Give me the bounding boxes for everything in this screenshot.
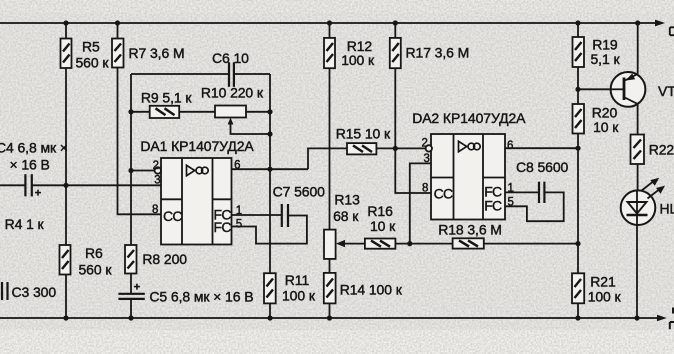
svg-text:FC: FC bbox=[214, 219, 232, 235]
arrow: R13 wiper from R16 bbox=[336, 240, 345, 247]
wire: R16 to R18 bbox=[395, 243, 452, 245]
junction: R16 / R18 / DA2 pin 3 bbox=[407, 241, 412, 246]
resistor R19 5,1k bbox=[573, 37, 621, 68]
svg-text:100 к: 100 к bbox=[282, 288, 316, 304]
arrow: LED emission 2 bbox=[648, 186, 666, 199]
svg-text:100 к: 100 к bbox=[588, 289, 622, 305]
wire: R10 wiper arm bbox=[231, 122, 271, 134]
svg-text:R13: R13 bbox=[334, 192, 360, 208]
svg-text:68 к: 68 к bbox=[333, 208, 359, 224]
junction: R9 left lead on feedback line bbox=[128, 109, 133, 114]
wire: R20 bottom to DA2 pin6 node and down to R18 node bbox=[577, 134, 579, 244]
junction: base node R19/R20 bbox=[575, 87, 580, 92]
svg-text:C3 300: C3 300 bbox=[12, 284, 57, 300]
svg-text:C5 6,8 мк × 16 В: C5 6,8 мк × 16 В bbox=[149, 289, 253, 305]
wire: R11 bottom lead bbox=[269, 303, 271, 318]
resistor R5 560k bbox=[61, 39, 110, 71]
node: cut-off letters bottom right bbox=[670, 308, 674, 330]
wire: R6 leads bbox=[65, 185, 67, 318]
resistor R7 3,6M bbox=[112, 39, 185, 68]
arrow: top rail output bbox=[655, 20, 665, 27]
wire: R9 to R10 bbox=[179, 111, 215, 113]
LED HL1 bbox=[621, 190, 674, 225]
svg-text:10 к: 10 к bbox=[593, 119, 619, 135]
wire: R7 top lead bbox=[117, 23, 119, 39]
wire: R18 node down to R21 bbox=[577, 244, 579, 274]
junction: top rail / R17 bbox=[393, 20, 398, 25]
junction: R6 / bottom rail bbox=[63, 315, 68, 320]
wire: R17 top lead bbox=[394, 23, 396, 38]
wire: bottom common rail bbox=[0, 317, 658, 319]
wire: DA1 pin 1 to C7 bbox=[232, 214, 282, 216]
wire: R10 right lead bbox=[246, 111, 270, 113]
svg-text:R15 10 к: R15 10 к bbox=[336, 126, 391, 142]
svg-text:С4 6,8 мк ×: С4 6,8 мк × bbox=[0, 139, 68, 155]
junction: R15 / R17 / DA2 pin 8 branch bbox=[393, 146, 398, 151]
junction: LED / bottom rail bbox=[634, 315, 639, 320]
svg-text:5,1 к: 5,1 к bbox=[591, 51, 621, 67]
resistor R15 10k bbox=[336, 126, 391, 155]
junction: top rail / R5 bbox=[63, 20, 68, 25]
svg-text:FC: FC bbox=[484, 198, 502, 214]
capacitor C5 6,8uF polarized bbox=[118, 284, 253, 305]
junction: R14 / bottom rail bbox=[327, 315, 332, 320]
svg-text:VT1: VT1 bbox=[658, 83, 674, 99]
resistor R12 100k bbox=[324, 38, 375, 68]
svg-text:CC: CC bbox=[163, 208, 182, 224]
svg-text:560 к: 560 к bbox=[79, 262, 113, 278]
svg-text:R5: R5 bbox=[82, 39, 100, 55]
junction: top rail / VT1 emitter bbox=[635, 20, 640, 25]
svg-text:R6: R6 bbox=[85, 245, 103, 261]
svg-text:R9 5,1 к: R9 5,1 к bbox=[141, 90, 192, 106]
resistor R21 100k bbox=[572, 273, 622, 304]
svg-text:100 к: 100 к bbox=[341, 52, 375, 68]
svg-text:R17 3,6 М: R17 3,6 М bbox=[406, 45, 470, 61]
junction: R18 / R21 column bbox=[575, 241, 580, 246]
svg-text:R4 1 к: R4 1 к bbox=[5, 216, 45, 232]
wire: R15 right lead to DA2 pin 2 bbox=[376, 147, 425, 149]
wire: R14 bottom lead bbox=[329, 303, 331, 318]
potentiometer R13 68k bbox=[324, 192, 360, 259]
junction: R21 / bottom rail bbox=[575, 315, 580, 320]
junction: top rail / R7 bbox=[115, 20, 120, 25]
resistor R22 bbox=[631, 135, 674, 165]
svg-text:3: 3 bbox=[154, 175, 160, 187]
potentiometer R10 220k bbox=[201, 85, 264, 118]
transistor VT1 (pnp) bbox=[611, 72, 674, 107]
arrow: R10 wiper bbox=[228, 118, 234, 125]
junction: C5 / bottom rail bbox=[128, 315, 133, 320]
junction: DA1 pin 2 node bbox=[128, 168, 133, 173]
wire: R18 right lead to R20/R21 column bbox=[484, 243, 578, 245]
capacitor C6 10 bbox=[212, 50, 249, 87]
junction: DA1 pin 6 / feedback bbox=[267, 167, 272, 172]
wire: base wire to VT1 bbox=[578, 88, 623, 90]
svg-text:R11: R11 bbox=[285, 272, 310, 288]
resistor R11 100k bbox=[264, 272, 316, 304]
svg-text:10 к: 10 к bbox=[370, 218, 396, 234]
wire: DA2 pin 1 to C8 bbox=[505, 191, 539, 193]
wire: R12 bottom to R13 top bbox=[329, 68, 331, 229]
wire: DA1 pin 5 staircase to C7 right plate bbox=[232, 216, 307, 244]
resistor R14 100k bbox=[324, 273, 403, 304]
wire: R5 bottom lead to input node bbox=[65, 68, 67, 185]
arrow: LED emission 1 bbox=[641, 178, 659, 191]
svg-text:6: 6 bbox=[507, 140, 513, 152]
svg-text:DA2 КР1407УД2А: DA2 КР1407УД2А bbox=[412, 110, 526, 126]
svg-text:HL1: HL1 bbox=[660, 201, 674, 217]
wire: R22 to LED bbox=[637, 164, 639, 190]
svg-text:R7 3,6 М: R7 3,6 М bbox=[129, 45, 185, 61]
svg-text:2: 2 bbox=[422, 138, 428, 150]
wire: R9 left lead bbox=[131, 111, 150, 113]
svg-text:R21: R21 bbox=[590, 274, 616, 290]
junction: wiper / feedback bbox=[267, 131, 272, 136]
arrow: bottom rail output bbox=[657, 315, 667, 322]
wire: LED cathode to bottom rail bbox=[636, 225, 638, 318]
wire: output riser to R15 bbox=[308, 148, 347, 169]
svg-text:C8 5600: C8 5600 bbox=[516, 159, 569, 175]
resistor R17 3,6M bbox=[390, 38, 469, 68]
wire: DA1 pin 6 output bbox=[232, 168, 309, 170]
wire: R19 top lead bbox=[577, 23, 579, 37]
wire: R17 bottom lead to R15 node bbox=[394, 68, 396, 148]
DA1 pin 2 inverting input circle bbox=[155, 167, 161, 173]
svg-text:R18 3,6 М: R18 3,6 М bbox=[438, 221, 502, 237]
node: cut-off letter top right bbox=[670, 27, 674, 35]
capacitor C8 5600 bbox=[516, 159, 569, 203]
resistor R9 5,1k bbox=[141, 90, 192, 119]
svg-text:× 16 В: × 16 В bbox=[10, 157, 50, 173]
wire: R13 bottom to R14 bbox=[329, 259, 331, 273]
svg-text:CC: CC bbox=[434, 185, 453, 201]
wire: R12 top lead bbox=[329, 23, 331, 38]
resistor R8 200 bbox=[125, 245, 187, 274]
junction: top rail / R19 bbox=[575, 20, 580, 25]
DA2 pin 2 inverting input circle bbox=[426, 145, 432, 151]
op-amp DA2 КР1407УД2А bbox=[412, 110, 526, 220]
junction: top rail / R12 bbox=[327, 20, 332, 25]
svg-text:2: 2 bbox=[153, 160, 159, 172]
svg-text:8: 8 bbox=[152, 204, 158, 216]
wire: DA1 pin 2 lead bbox=[131, 170, 155, 172]
svg-text:C7 5600: C7 5600 bbox=[273, 184, 326, 200]
svg-text:R22: R22 bbox=[649, 142, 674, 158]
resistor R18 3,6M bbox=[438, 221, 502, 248]
svg-text:5: 5 bbox=[236, 219, 242, 231]
svg-text:R10 220 к: R10 220 к bbox=[201, 85, 264, 101]
resistor R6 560k bbox=[60, 245, 113, 278]
wire: R5 top lead bbox=[65, 23, 67, 39]
capacitor C3 300 at left edge bbox=[2, 282, 56, 300]
junction: input node R5/R6/C4 bbox=[63, 183, 68, 188]
wire: input line from left edge through C4 to DA1 pin 3 bbox=[0, 184, 161, 186]
wire: VT1 collector to R22 bbox=[637, 104, 639, 135]
wire: feedback right vertical (C6/R10/wiper/pin6) bbox=[269, 74, 271, 273]
svg-text:С6 10: С6 10 bbox=[212, 50, 249, 66]
capacitor C7 5600 bbox=[273, 184, 326, 228]
wire: feedback top run to C6 bbox=[131, 73, 270, 75]
resistor R20 10k bbox=[573, 104, 620, 135]
svg-text:8: 8 bbox=[422, 183, 428, 195]
wire: R13 wiper to R16 bbox=[342, 243, 365, 245]
wire: top supply rail bbox=[0, 22, 656, 24]
svg-text:R14 100 к: R14 100 к bbox=[340, 282, 403, 298]
wire: VT1 emitter to top rail bbox=[637, 23, 639, 74]
wire: R21 bottom lead bbox=[577, 303, 579, 318]
resistor R16 10k bbox=[365, 203, 396, 249]
wire: R8 to C5 and C5 to rail bbox=[130, 274, 132, 319]
wire: branch down to DA2 pin 8 bbox=[395, 148, 431, 193]
svg-text:DA1 КР1407УД2А: DA1 КР1407УД2А bbox=[140, 138, 254, 154]
svg-text:R16: R16 bbox=[367, 203, 393, 219]
op-amp DA1 КР1407УД2А bbox=[140, 138, 254, 244]
wire: DA2 pin 5 staircase to C8 right plate bbox=[505, 192, 564, 221]
wire: DA2 pin 6 output to transistor column bbox=[505, 147, 578, 149]
wire: feedback node vertical line (pin2 / R8 / C6 loop) bbox=[130, 74, 132, 245]
junction: R11 / bottom rail bbox=[267, 315, 272, 320]
wire: R7 bottom lead down and right to DA1 pin 8 bbox=[118, 68, 162, 215]
svg-text:R8 200: R8 200 bbox=[142, 251, 187, 267]
junction: R10 right / feedback bbox=[267, 109, 272, 114]
svg-text:560 к: 560 к bbox=[76, 55, 110, 71]
wire: R19 to base node bbox=[577, 67, 579, 104]
wire: DA2 pin 3 down to R16/R18 node bbox=[410, 163, 431, 243]
junction: DA2 pin 6 / R20 column bbox=[575, 146, 580, 151]
capacitor C4 6,8uF polarized bbox=[0, 139, 68, 196]
